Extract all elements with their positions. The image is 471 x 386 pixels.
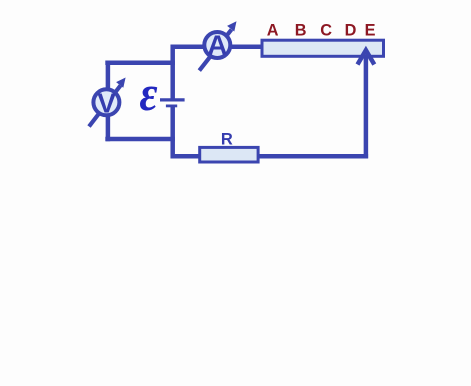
wire: right vertical (to wiper) (364, 53, 369, 158)
wiper arrow head (358, 50, 375, 64)
svg-text:C: C (320, 22, 332, 40)
resistor R body (200, 147, 258, 162)
svg-text:D: D (345, 22, 357, 40)
battery cell EMF: long plate (160, 98, 185, 101)
battery cell EMF: short plate (166, 105, 177, 108)
wire: top main horizontal (battery to rheostat) (171, 45, 263, 50)
svg-text:E: E (365, 22, 376, 40)
wire: voltmeter branch bottom horizontal (105, 137, 175, 142)
wire: bottom main horizontal (171, 154, 369, 159)
wire: battery vertical upper segment (170, 45, 175, 100)
wire: voltmeter branch left vertical (106, 61, 111, 142)
svg-text:B: B (295, 22, 307, 40)
svg-text:A: A (207, 30, 227, 61)
voltmeter U-V circle (89, 78, 126, 127)
wire: battery vertical lower segment (170, 106, 175, 158)
svg-text:V: V (97, 88, 116, 119)
svg-text:ε: ε (139, 67, 157, 122)
svg-text:R: R (221, 130, 233, 148)
svg-text:A: A (267, 22, 279, 40)
rheostat (slide-wire) body (262, 40, 384, 56)
ammeter U-A circle (199, 21, 236, 70)
wire: voltmeter branch top horizontal (105, 60, 175, 65)
